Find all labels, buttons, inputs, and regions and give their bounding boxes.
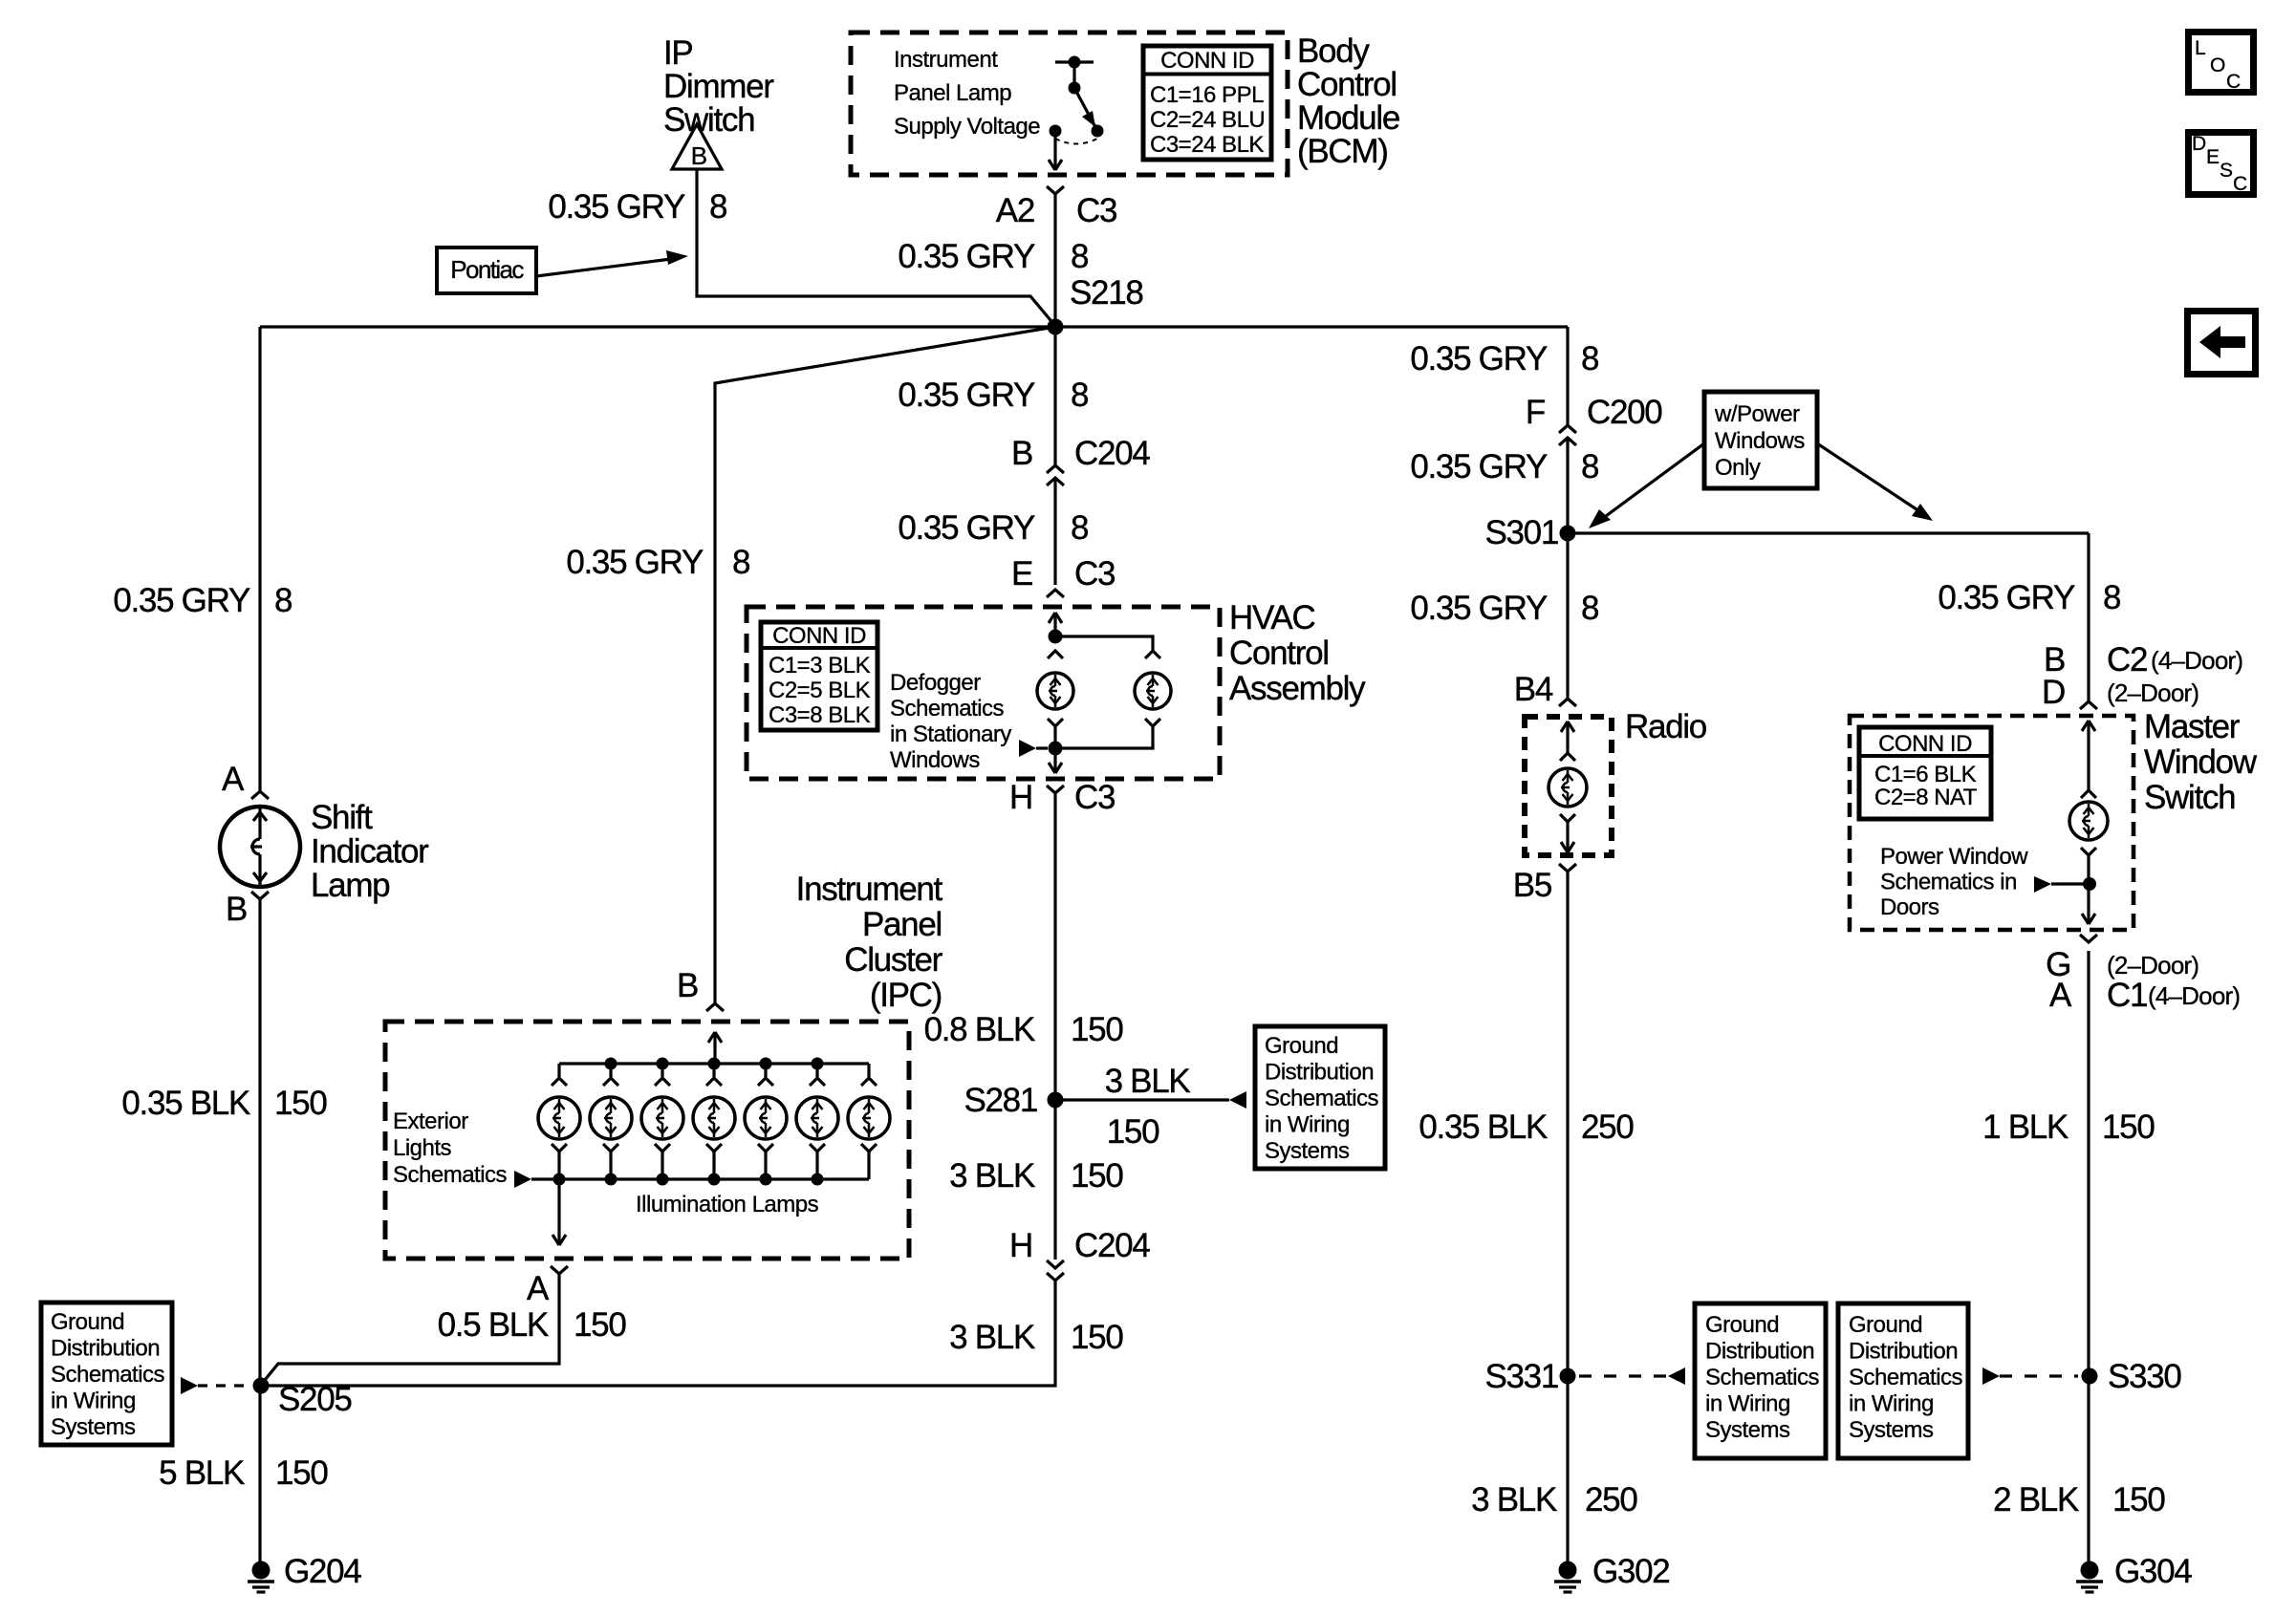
svg-text:8: 8: [274, 582, 292, 619]
svg-text:Exterior: Exterior: [393, 1109, 468, 1134]
svg-text:B: B: [1011, 435, 1032, 472]
svg-text:D: D: [2042, 674, 2065, 711]
svg-text:2 BLK: 2 BLK: [1993, 1481, 2079, 1518]
svg-text:8: 8: [1071, 238, 1088, 275]
svg-text:C3=8 BLK: C3=8 BLK: [769, 702, 871, 728]
svg-text:150: 150: [1107, 1113, 1159, 1151]
svg-text:8: 8: [1071, 509, 1088, 547]
svg-text:0.35 GRY: 0.35 GRY: [548, 188, 685, 226]
svg-text:0.5 BLK: 0.5 BLK: [438, 1306, 549, 1344]
svg-text:0.35 GRY: 0.35 GRY: [898, 377, 1035, 414]
svg-text:Assembly: Assembly: [1229, 670, 1366, 707]
svg-text:Switch: Switch: [2144, 779, 2235, 816]
svg-text:Control: Control: [1297, 66, 1397, 103]
svg-text:Pontiac: Pontiac: [450, 255, 524, 284]
svg-text:Systems: Systems: [1265, 1138, 1350, 1164]
svg-text:C2=8 NAT: C2=8 NAT: [1874, 785, 1978, 810]
svg-text:C3=24 BLK: C3=24 BLK: [1150, 132, 1264, 158]
svg-text:C1=16 PPL: C1=16 PPL: [1150, 82, 1264, 108]
svg-text:Module: Module: [1297, 99, 1399, 137]
svg-text:0.35 GRY: 0.35 GRY: [898, 238, 1035, 275]
svg-text:8: 8: [1581, 340, 1598, 377]
svg-text:Body: Body: [1297, 32, 1370, 70]
svg-text:O: O: [2210, 54, 2225, 76]
svg-text:A: A: [527, 1270, 550, 1307]
svg-text:S281: S281: [964, 1082, 1037, 1119]
svg-text:G304: G304: [2114, 1553, 2192, 1590]
svg-text:B: B: [691, 141, 707, 170]
svg-text:0.35 BLK: 0.35 BLK: [1419, 1109, 1548, 1146]
svg-text:C2: C2: [2107, 641, 2147, 678]
svg-text:S205: S205: [278, 1381, 352, 1418]
svg-text:0.35 GRY: 0.35 GRY: [113, 582, 250, 619]
svg-text:Instrument: Instrument: [894, 47, 998, 73]
svg-text:E: E: [2206, 146, 2220, 168]
svg-text:L: L: [2195, 37, 2205, 59]
svg-text:Distribution: Distribution: [1849, 1339, 1958, 1365]
svg-text:Systems: Systems: [1705, 1417, 1790, 1443]
svg-text:Schematics: Schematics: [890, 696, 1005, 721]
svg-text:0.35 GRY: 0.35 GRY: [1410, 448, 1548, 485]
svg-text:Only: Only: [1715, 455, 1761, 481]
svg-text:Panel Lamp: Panel Lamp: [894, 80, 1011, 106]
svg-text:S301: S301: [1484, 514, 1558, 551]
svg-text:E: E: [1011, 555, 1032, 592]
svg-text:C2=5 BLK: C2=5 BLK: [769, 678, 871, 703]
svg-text:Schematics: Schematics: [1849, 1365, 1963, 1390]
svg-text:C1=3 BLK: C1=3 BLK: [769, 653, 871, 678]
svg-text:0.35 GRY: 0.35 GRY: [898, 509, 1035, 547]
svg-text:S: S: [2220, 160, 2233, 182]
svg-text:C204: C204: [1074, 435, 1150, 472]
svg-text:Ground: Ground: [1265, 1033, 1338, 1059]
svg-text:A2: A2: [996, 192, 1034, 229]
svg-text:Window: Window: [2144, 743, 2258, 781]
svg-text:Power Window: Power Window: [1880, 844, 2028, 870]
svg-text:Ground: Ground: [51, 1309, 124, 1335]
svg-text:D: D: [2192, 133, 2206, 155]
svg-text:Lamp: Lamp: [311, 867, 389, 904]
svg-text:C200: C200: [1587, 394, 1662, 431]
svg-text:Panel: Panel: [862, 906, 942, 943]
svg-text:C3: C3: [1076, 192, 1116, 229]
svg-text:150: 150: [2102, 1109, 2155, 1146]
svg-text:S330: S330: [2108, 1358, 2181, 1395]
svg-text:A: A: [2049, 977, 2072, 1014]
svg-text:Distribution: Distribution: [1705, 1339, 1814, 1365]
svg-text:in Stationary: in Stationary: [890, 721, 1011, 747]
svg-text:Shift: Shift: [311, 799, 373, 836]
svg-text:B5: B5: [1513, 867, 1551, 904]
svg-text:IP: IP: [663, 34, 692, 72]
svg-text:CONN ID: CONN ID: [772, 623, 866, 649]
svg-text:150: 150: [275, 1454, 328, 1492]
svg-text:C3: C3: [1074, 779, 1115, 816]
svg-text:S218: S218: [1070, 274, 1143, 312]
svg-text:(2–Door): (2–Door): [2107, 951, 2199, 980]
svg-text:B: B: [677, 967, 698, 1004]
svg-text:0.8 BLK: 0.8 BLK: [924, 1011, 1035, 1048]
svg-text:Radio: Radio: [1625, 708, 1706, 745]
svg-text:Instrument: Instrument: [796, 871, 943, 908]
svg-text:in Wiring: in Wiring: [1705, 1391, 1790, 1417]
svg-text:3 BLK: 3 BLK: [949, 1319, 1035, 1356]
svg-text:Dimmer: Dimmer: [663, 68, 774, 105]
svg-text:w/Power: w/Power: [1714, 401, 1800, 427]
svg-text:Illumination Lamps: Illumination Lamps: [636, 1192, 819, 1217]
svg-text:8: 8: [1071, 377, 1088, 414]
svg-text:Distribution: Distribution: [51, 1336, 160, 1362]
svg-text:Schematics: Schematics: [51, 1362, 165, 1388]
svg-text:250: 250: [1581, 1109, 1634, 1146]
svg-text:250: 250: [1585, 1481, 1637, 1518]
svg-text:Distribution: Distribution: [1265, 1060, 1374, 1086]
svg-text:Control: Control: [1229, 635, 1329, 672]
svg-text:(BCM): (BCM): [1297, 133, 1388, 170]
svg-text:3 BLK: 3 BLK: [1105, 1063, 1191, 1100]
svg-text:Schematics: Schematics: [393, 1162, 508, 1188]
svg-text:C: C: [2233, 173, 2247, 195]
svg-text:3 BLK: 3 BLK: [949, 1157, 1035, 1195]
svg-text:150: 150: [574, 1306, 626, 1344]
svg-text:Schematics: Schematics: [1705, 1365, 1820, 1390]
svg-text:(IPC): (IPC): [870, 977, 942, 1014]
svg-text:5 BLK: 5 BLK: [159, 1454, 245, 1492]
svg-text:B4: B4: [1514, 671, 1553, 708]
svg-text:0.35 GRY: 0.35 GRY: [1410, 340, 1548, 377]
svg-text:3 BLK: 3 BLK: [1471, 1481, 1557, 1518]
svg-text:Defogger: Defogger: [890, 670, 981, 696]
svg-text:Cluster: Cluster: [844, 941, 942, 979]
svg-text:8: 8: [1581, 448, 1598, 485]
svg-text:8: 8: [732, 544, 749, 581]
svg-text:G204: G204: [284, 1553, 361, 1590]
svg-text:0.35 GRY: 0.35 GRY: [1410, 590, 1548, 627]
svg-text:F: F: [1526, 394, 1545, 431]
svg-text:in Wiring: in Wiring: [1849, 1391, 1934, 1417]
svg-text:Schematics in: Schematics in: [1880, 870, 2017, 895]
svg-text:A: A: [222, 761, 245, 798]
svg-text:150: 150: [1071, 1319, 1123, 1356]
svg-text:H: H: [1009, 1227, 1032, 1264]
svg-text:C: C: [2226, 71, 2241, 93]
svg-text:HVAC: HVAC: [1229, 599, 1314, 636]
svg-text:Ground: Ground: [1705, 1312, 1779, 1338]
svg-text:C2=24 BLU: C2=24 BLU: [1150, 107, 1265, 133]
svg-text:150: 150: [1071, 1011, 1123, 1048]
svg-text:150: 150: [2112, 1481, 2165, 1518]
svg-text:Lights: Lights: [393, 1135, 452, 1161]
svg-text:150: 150: [274, 1085, 327, 1122]
svg-text:(4–Door): (4–Door): [2151, 646, 2242, 675]
svg-text:(2–Door): (2–Door): [2107, 678, 2199, 707]
svg-text:Windows: Windows: [1715, 428, 1805, 454]
svg-text:Systems: Systems: [1849, 1417, 1934, 1443]
svg-text:CONN ID: CONN ID: [1878, 731, 1972, 757]
svg-text:C204: C204: [1074, 1227, 1150, 1264]
svg-text:Supply Voltage: Supply Voltage: [894, 114, 1040, 140]
svg-text:Systems: Systems: [51, 1414, 136, 1440]
svg-text:8: 8: [709, 188, 726, 226]
svg-text:Ground: Ground: [1849, 1312, 1922, 1338]
svg-text:in Wiring: in Wiring: [1265, 1112, 1350, 1138]
svg-text:Schematics: Schematics: [1265, 1086, 1379, 1111]
svg-text:0.35 GRY: 0.35 GRY: [1938, 579, 2075, 616]
svg-text:G302: G302: [1592, 1553, 1669, 1590]
svg-text:Doors: Doors: [1880, 894, 1939, 920]
svg-text:8: 8: [2103, 579, 2120, 616]
svg-text:H: H: [1009, 779, 1032, 816]
svg-text:Indicator: Indicator: [311, 833, 429, 871]
svg-text:CONN ID: CONN ID: [1160, 48, 1254, 74]
svg-text:Master: Master: [2144, 708, 2241, 745]
svg-text:8: 8: [1581, 590, 1598, 627]
svg-text:S331: S331: [1484, 1358, 1558, 1395]
svg-text:Switch: Switch: [663, 101, 754, 139]
svg-text:in Wiring: in Wiring: [51, 1389, 136, 1414]
svg-text:C1: C1: [2107, 977, 2147, 1014]
svg-text:C1=6 BLK: C1=6 BLK: [1874, 762, 1977, 787]
svg-text:Windows: Windows: [890, 747, 980, 773]
svg-text:1 BLK: 1 BLK: [1982, 1109, 2069, 1146]
svg-text:150: 150: [1071, 1157, 1123, 1195]
svg-text:C3: C3: [1074, 555, 1115, 592]
svg-text:(4–Door): (4–Door): [2148, 981, 2240, 1010]
svg-text:0.35 GRY: 0.35 GRY: [566, 544, 704, 581]
svg-text:0.35 BLK: 0.35 BLK: [121, 1085, 250, 1122]
svg-text:B: B: [226, 891, 247, 928]
